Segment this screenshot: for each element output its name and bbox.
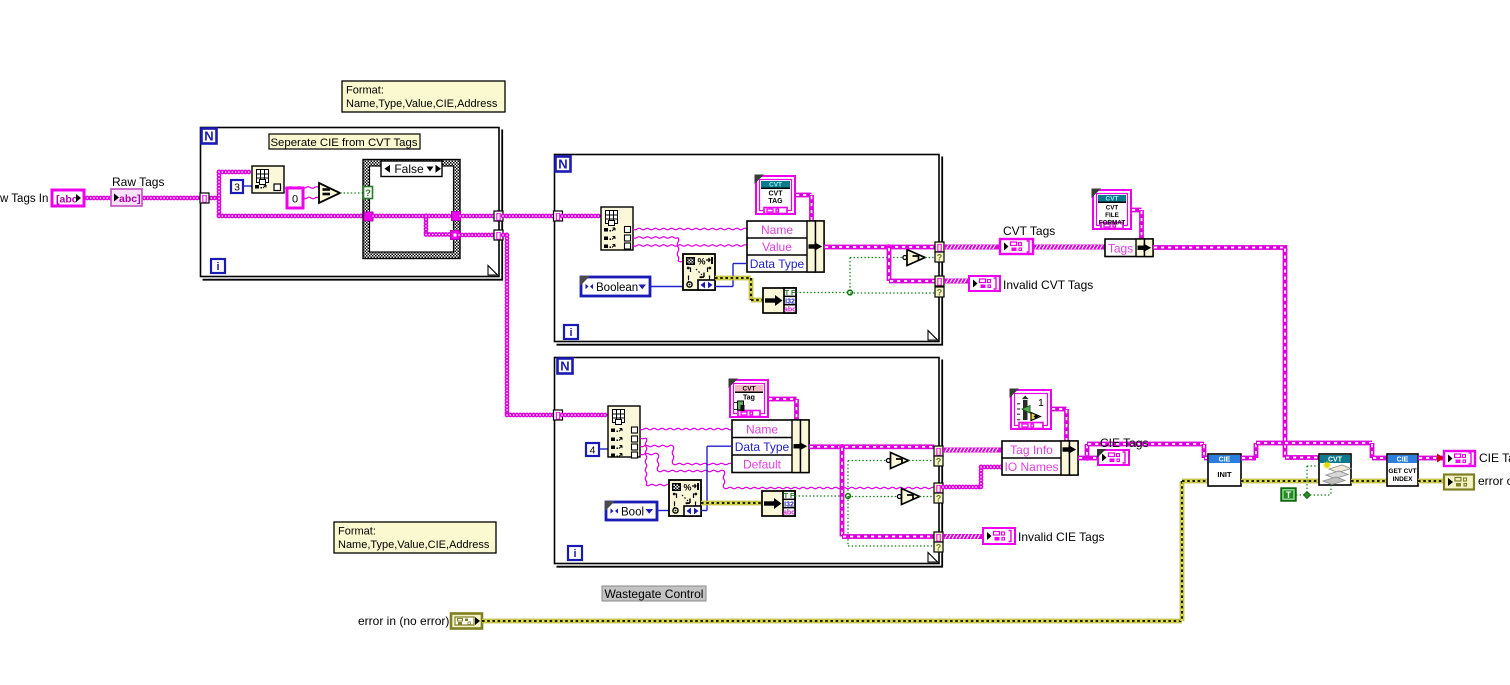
- wire: index3 row4 right: [640, 453, 658, 455]
- wire: bypass over CVT stack: [1256, 441, 1372, 446]
- indicator terminal Invalid CIE Tags: [983, 528, 1015, 544]
- case left input tunnel (solid magenta): [364, 212, 373, 221]
- comment note: Format Name,Type,Value,CIE,Address (bottom): [334, 522, 496, 553]
- function: Bundle By Name (Name/Data Type/Default): [732, 420, 809, 473]
- comment note: Format Name,Type,Value,CIE,Address (top): [342, 81, 505, 112]
- wire: case tunnel to loop1 right tunnel upper: [460, 214, 494, 219]
- function: Equal? comparison: [319, 183, 340, 203]
- wire: Bool enum to scan (loop3): [657, 510, 670, 512]
- svg-text:N: N: [204, 129, 213, 144]
- svg-text:abc: abc: [784, 307, 796, 314]
- cluster constant slider Tag Info template: [1010, 389, 1052, 430]
- wire: green to NOT2: [848, 496, 897, 498]
- svg-text:CVT: CVT: [1328, 457, 1343, 464]
- svg-text:GET CVT: GET CVT: [1388, 468, 1416, 475]
- svg-text:IO Names: IO Names: [1004, 460, 1058, 474]
- wire: loop2 tunnel to index array 2: [562, 214, 601, 219]
- wire: green branch up to NOT1: [847, 461, 849, 497]
- svg-text:I32: I32: [785, 298, 795, 305]
- indicator terminal Invalid CVT Tags: [969, 276, 1000, 291]
- wire: split down to case selector tunnel row: [219, 214, 364, 219]
- conditional tunnel ? loop3 pair3: [934, 542, 943, 553]
- wire: green to conditional tunnel lower: [850, 292, 935, 294]
- svg-text:error in (no error): error in (no error): [358, 614, 449, 628]
- function: Not gate 1 (loop3): [886, 453, 908, 469]
- svg-text:N: N: [558, 157, 567, 172]
- svg-text:[]: []: [937, 277, 943, 286]
- svg-text:[]: []: [936, 533, 942, 542]
- svg-text:Bool: Bool: [621, 506, 644, 518]
- tunnel: loop3 right pair2 []: [934, 483, 943, 493]
- wire: vertical split inside loop1: [217, 172, 222, 216]
- wire: typecast TF output right (boolean): [796, 292, 850, 294]
- wire: index2 row2 right: [633, 237, 678, 239]
- constant True (green T): [1281, 488, 1296, 501]
- wire: case tunnel to loop1 right tunnel lower: [459, 233, 494, 238]
- function: Type Cast (loop3): [762, 491, 795, 517]
- wire: Tags long wire descending: [1283, 248, 1288, 458]
- wire: green into NOT gate: [850, 257, 903, 259]
- svg-text:CIE Tags: CIE Tags: [1100, 436, 1148, 450]
- label Seperate CIE from CVT Tags: [269, 134, 420, 149]
- svg-text:0: 0: [292, 194, 298, 206]
- svg-text:N: N: [560, 359, 569, 374]
- wire: long string wire to loop3 tunnel pair2: [724, 487, 935, 489]
- svg-text:w Tags In: w Tags In: [0, 193, 48, 205]
- wire: loop3 pair3 output to Invalid CIE Tags: [943, 534, 983, 539]
- svg-text:?: ?: [936, 457, 942, 467]
- wire: bundler2 output to loop2 tunnel: [824, 245, 935, 250]
- wire: index3 row4 right segment: [658, 470, 724, 472]
- svg-text:i: i: [569, 327, 572, 339]
- tunnel: loop3 right pair1 []: [934, 446, 943, 456]
- wire: into CIE INIT: [1204, 456, 1208, 461]
- tunnel: loop2 right lower []: [935, 276, 944, 286]
- conditional tunnel ? loop3 pair2: [934, 493, 943, 504]
- cluster constant CVT TAG: [755, 175, 796, 215]
- wire: loop2 lower output to Invalid CVT Tags: [944, 279, 969, 284]
- svg-text:Invalid CIE Tags: Invalid CIE Tags: [1018, 530, 1105, 544]
- svg-text:?: ?: [937, 253, 943, 263]
- tunnel: loop2 right upper []: [935, 242, 944, 252]
- wire: branch to loop3 tunnel pair3: [842, 534, 934, 539]
- svg-text:Tag Info: Tag Info: [1010, 443, 1053, 457]
- function: Not gate 2 (loop3): [897, 489, 919, 505]
- function: Scan From String (loop3): [669, 480, 701, 516]
- wire: loop1 lower output right: [503, 233, 507, 238]
- wire: vertical down to loop3: [505, 235, 510, 415]
- svg-text:Name: Name: [761, 223, 793, 237]
- wire: into loop3 input tunnel: [507, 413, 555, 418]
- svg-text:?: ?: [937, 288, 943, 298]
- wire: index3 row2 down: [645, 438, 647, 485]
- wire: index2 row2 down: [677, 238, 679, 262]
- wire: NOT output to conditional tunnel upper: [925, 257, 935, 259]
- wire: loop3 tunnel to index array 3: [562, 413, 608, 418]
- svg-text:False: False: [394, 162, 424, 176]
- svg-text:i: i: [573, 548, 576, 560]
- wire: error to error out terminal: [1418, 479, 1444, 483]
- cluster constant CVT FILE FORMAT: [1092, 189, 1132, 230]
- svg-text:CIE Ta: CIE Ta: [1479, 451, 1510, 465]
- subVI CVT stack (create tags): [1319, 454, 1351, 485]
- wire: branch right to lower case tunnel: [426, 232, 451, 237]
- svg-text:Name,Type,Value,CIE,Address: Name,Type,Value,CIE,Address: [346, 98, 498, 110]
- wire: index2 row3 to Value field: [633, 245, 747, 247]
- svg-text:Value: Value: [762, 240, 792, 254]
- wire: CVT Tag cluster to bundler3 top: [768, 397, 797, 402]
- svg-text:[]: []: [202, 194, 208, 203]
- function: Index Array 3 (inside loop3): [608, 406, 640, 458]
- svg-text:?: ?: [936, 494, 942, 504]
- svg-text:FORMAT: FORMAT: [1099, 220, 1126, 227]
- wire: equals output to case selector (boolean): [340, 192, 363, 194]
- wire: NOT1 output to ? tunnel pair1: [909, 460, 935, 462]
- wire: typecast3 TF output (boolean): [795, 495, 848, 497]
- wire: scan blue output up to Data Type field: [715, 286, 733, 288]
- svg-text:Default: Default: [743, 457, 782, 471]
- wire: scan3 vertical to Data Type: [706, 446, 708, 510]
- case structure False frame: [363, 160, 460, 259]
- tunnel: loop3 left border []: [554, 410, 563, 420]
- wire: into GET CVT INDEX: [1372, 456, 1387, 461]
- case selector label False: [381, 161, 442, 177]
- wire: loop1 upper output to loop2 input tunnel: [503, 214, 555, 219]
- svg-text:[]: []: [936, 447, 942, 456]
- wire: GET CVT INDEX output to CIE Tags out: [1418, 456, 1444, 461]
- constant 0 (string, pink): [287, 188, 303, 208]
- wire: CVT TAG cluster to bundler2 top: [795, 193, 812, 198]
- wire: into Data Type field: [733, 263, 747, 265]
- svg-text:Data Type: Data Type: [750, 257, 805, 271]
- svg-text:T F: T F: [784, 493, 795, 500]
- wire: branch up from junction: [1085, 444, 1090, 458]
- tunnel: loop1 right border upper []: [494, 211, 503, 221]
- svg-text:Format:: Format:: [346, 85, 384, 97]
- junction magenta (loop2 output): [886, 244, 892, 250]
- wire: error INIT to CVT stack: [1241, 479, 1319, 483]
- wire: CVT TAG cluster down into bundler2: [809, 195, 814, 221]
- wire: branch to loop2 lower tunnel: [889, 279, 935, 284]
- svg-text:error o: error o: [1478, 474, 1510, 488]
- wire: constant 3 to index array 1: [243, 185, 252, 187]
- conditional tunnel ? loop2 lower: [935, 287, 944, 298]
- junction green (loop3): [846, 494, 851, 499]
- wire: green branch down: [847, 496, 849, 546]
- enum constant Bool: [605, 501, 657, 520]
- junction green (loop2): [848, 290, 853, 295]
- wire: case left tunnel across to right tunnel: [373, 214, 452, 219]
- loop count terminal N of for-loop 2: [556, 157, 571, 172]
- wire: branch down inside case: [424, 216, 429, 235]
- junction on case wire: [423, 213, 428, 218]
- indicator terminal CVT Tags: [1000, 239, 1033, 254]
- for-loop frame 3 (CIE tag parse): [555, 358, 943, 567]
- wire: up to bypass level: [1254, 443, 1259, 458]
- svg-text:[abc: [abc: [56, 194, 78, 206]
- function: Bundle By Name (Tag Info/IO Names): [1002, 441, 1078, 475]
- wire: green branch up to NOT gate: [849, 258, 851, 293]
- wire: green up to CVT stack input: [1306, 466, 1308, 492]
- terminal Raw Tags [abc]: [111, 189, 142, 206]
- svg-text:Wastegate Control: Wastegate Control: [605, 587, 704, 601]
- wire: Raw Tags terminal to for-loop 1 tunnel: [141, 196, 201, 201]
- conditional tunnel ? loop3 pair1: [934, 456, 943, 467]
- wire: green to ? tunnel pair3: [848, 545, 934, 547]
- wire: error into CIE INIT: [1182, 479, 1208, 483]
- iteration terminal i of for-loop 3: [568, 546, 582, 560]
- constant 3 (blue numeric): [231, 180, 243, 194]
- wire: index2 row1 to Name field: [633, 228, 747, 230]
- svg-text:CIE: CIE: [1397, 457, 1409, 464]
- wire: CVT FILE FORMAT to Tags bundler top: [1131, 208, 1142, 213]
- function: Type Cast (loop2): [763, 288, 796, 314]
- wire: into typecast: [751, 298, 763, 302]
- svg-text:4: 4: [590, 445, 596, 457]
- wire: loop3 pair1 output to Tag Info field: [943, 448, 1002, 453]
- wire: split to index array 1 input: [219, 170, 252, 175]
- cluster constant CVT Tag: [729, 379, 769, 418]
- wire: index3 row2 right: [640, 437, 646, 440]
- wire: loop1 tunnel to vertical split: [208, 196, 219, 201]
- svg-text:3: 3: [234, 182, 240, 194]
- wire: green up into CVT stack bottom: [1330, 485, 1332, 495]
- wire: error CVT stack to GET CVT INDEX: [1351, 479, 1387, 483]
- svg-text:Format:: Format:: [338, 526, 376, 538]
- label Wastegate Control: [602, 586, 706, 601]
- wire: green right: [1310, 494, 1331, 496]
- wire: index3 row2 to scan input: [646, 484, 670, 486]
- function: Index Array 2 (inside loop2): [601, 207, 633, 250]
- wire arrowhead red at CIE Tags out: [1437, 454, 1444, 463]
- svg-text:Raw Tags: Raw Tags: [112, 175, 164, 189]
- wire: Tags descent into CVT stack: [1285, 455, 1319, 460]
- svg-text:T: T: [1286, 490, 1292, 500]
- svg-text:INIT: INIT: [1217, 470, 1232, 479]
- wire: down into bundler3: [794, 399, 799, 420]
- iteration terminal i of for-loop 2: [564, 325, 578, 339]
- wire: index3 row3 right: [640, 445, 673, 447]
- wire: index3 row1 to Name field: [640, 428, 732, 430]
- wire: Tag Info bundler output: [1078, 456, 1098, 461]
- svg-text:i: i: [216, 261, 219, 273]
- tunnel: loop1 left border []: [200, 193, 209, 203]
- wire: green into NOT1: [848, 460, 886, 462]
- svg-text:?: ?: [365, 188, 371, 199]
- wire: down to GET CVT INDEX input: [1370, 443, 1375, 458]
- indicator terminal error out: [1444, 475, 1474, 490]
- indicator terminal CIE Tags out: [1444, 451, 1475, 466]
- wire: Boolean enum to scan input: [650, 286, 684, 288]
- svg-text:TAG: TAG: [768, 198, 783, 205]
- wire: down to CIE INIT input: [1202, 444, 1207, 458]
- wire: long run right at y444: [1087, 442, 1204, 447]
- wire: Raw Tags In terminal to Raw Tags terminal (1D string array): [84, 196, 111, 201]
- svg-text:CVT: CVT: [1106, 205, 1119, 212]
- wire: error vertical up to CIE INIT: [1180, 481, 1184, 621]
- svg-text:Data Type: Data Type: [735, 440, 790, 454]
- svg-text:?: ?: [936, 543, 942, 553]
- wire: bundler3 output to loop3 tunnel pair1: [809, 444, 934, 449]
- svg-text:[]: []: [936, 484, 942, 493]
- wire: green into CVT stack: [1307, 465, 1319, 467]
- svg-text:[]: []: [496, 231, 502, 240]
- function: Bundle By Name (Tags): [1105, 239, 1153, 257]
- function: Scan From String (loop2): [683, 254, 715, 290]
- svg-text:[]: []: [937, 243, 943, 252]
- svg-text:1: 1: [1038, 397, 1044, 409]
- wire: index2 row2 into scan: [678, 260, 684, 263]
- wire: NOT2 output to ? tunnel pair2: [920, 496, 935, 498]
- svg-text:[]: []: [496, 212, 502, 221]
- subVI CIE GET CVT INDEX: [1387, 454, 1418, 486]
- wire: index3 row3 down: [672, 446, 674, 464]
- wire: scan3 error output to typecast3: [701, 501, 762, 505]
- wire: Tags bundler long output right: [1153, 245, 1288, 250]
- loop count terminal N of for-loop 1: [202, 129, 217, 144]
- wire: scan error output to typecast (loop2): [715, 276, 751, 280]
- wire: up to IO Names level: [979, 467, 984, 487]
- control terminal Raw Tags In [abc]: [52, 190, 84, 206]
- subVI CIE INIT: [1208, 454, 1241, 486]
- wire: branch down from bundler2 output: [887, 247, 892, 281]
- svg-text:CIE: CIE: [1219, 457, 1231, 464]
- svg-text:Invalid CVT Tags: Invalid CVT Tags: [1003, 278, 1093, 292]
- svg-text:Boolean: Boolean: [596, 282, 638, 294]
- wire: INIT magenta output jog up: [1241, 456, 1256, 461]
- svg-text:abc: abc: [783, 510, 795, 517]
- svg-text:Tag: Tag: [743, 395, 755, 402]
- wire: loop2 output to CVT Tags indicator: [944, 245, 1000, 250]
- tunnel: loop1 right border lower []: [494, 230, 503, 240]
- wire: index3 row4 down to output level: [723, 471, 725, 488]
- svg-text:INDEX: INDEX: [1393, 476, 1414, 483]
- function: Not gate (loop2): [903, 250, 925, 266]
- tunnel: loop2 left border []: [554, 211, 563, 221]
- case right output tunnel upper (solid magenta): [452, 212, 461, 221]
- case selector terminal ?: [364, 187, 373, 200]
- constant 4 (blue numeric): [586, 443, 599, 457]
- wire: scan error down: [749, 278, 753, 300]
- indicator terminal CIE Tags (middle): [1097, 449, 1129, 465]
- svg-text:T F: T F: [785, 290, 796, 297]
- conditional tunnel ? loop2 upper: [935, 252, 944, 263]
- wire: constant 4 to index array 3: [599, 448, 608, 450]
- wire: scan3 blue output to Data Type: [701, 510, 707, 512]
- wire: into IO Names field: [981, 465, 1002, 470]
- function: Bundle By Name (Name/Value/Data Type): [747, 221, 824, 272]
- wire: down into Tag Info bundler: [1064, 409, 1069, 441]
- control terminal error in (no error): [451, 614, 482, 629]
- wire: error in long run: [482, 619, 1182, 623]
- svg-text:Tags: Tags: [1108, 241, 1133, 255]
- svg-text:Seperate CIE from CVT Tags: Seperate CIE from CVT Tags: [270, 137, 417, 149]
- svg-text:Name,Type,Value,CIE,Address: Name,Type,Value,CIE,Address: [338, 539, 490, 551]
- svg-text:I32: I32: [784, 501, 794, 508]
- wire: slider cluster to Tag Info bundler top: [1051, 407, 1067, 412]
- wire: constant 0 to equals: [303, 197, 319, 199]
- for-loop frame 2 (CVT tag parse): [555, 155, 943, 345]
- svg-text:FILE: FILE: [1105, 212, 1119, 219]
- case right output tunnel lower (magenta with center): [451, 231, 460, 240]
- junction magenta (loop3 output): [839, 444, 845, 450]
- wire: scan output vertical to Data Type: [732, 264, 734, 287]
- svg-text:%: %: [698, 257, 706, 267]
- wire: CVT Tags to Tags bundler: [1033, 245, 1105, 250]
- svg-text:abc]: abc]: [119, 193, 141, 205]
- tunnel: loop3 right pair3 []: [934, 532, 943, 542]
- wire: index3 row3 to Default field: [673, 463, 732, 465]
- svg-text:Name: Name: [746, 422, 778, 436]
- wire: index array 1 output to equals: [284, 187, 319, 189]
- svg-text:%: %: [684, 483, 692, 493]
- wire: T constant right: [1296, 494, 1307, 496]
- wire: loop3 pair2 output right: [943, 485, 981, 490]
- loop count terminal N of for-loop 3: [558, 359, 573, 374]
- wire: branch down from bundler3 output: [840, 447, 845, 537]
- wire: into Data Type field (loop3): [707, 445, 732, 447]
- for-loop frame 1 (Seperate CIE from CVT Tags): [201, 128, 503, 280]
- enum constant Boolean: [580, 276, 650, 296]
- junction green diamond: [1304, 492, 1311, 499]
- function: Index Array 1 (inside loop1): [252, 166, 284, 193]
- wire: index3 row4 down: [657, 454, 659, 471]
- svg-text:CVT: CVT: [769, 191, 784, 198]
- iteration terminal i of for-loop 1: [211, 259, 225, 273]
- junction magenta (Tag Info output): [1084, 455, 1090, 461]
- wire: down into Tags bundler: [1139, 210, 1144, 239]
- svg-text:CVT Tags: CVT Tags: [1003, 224, 1055, 238]
